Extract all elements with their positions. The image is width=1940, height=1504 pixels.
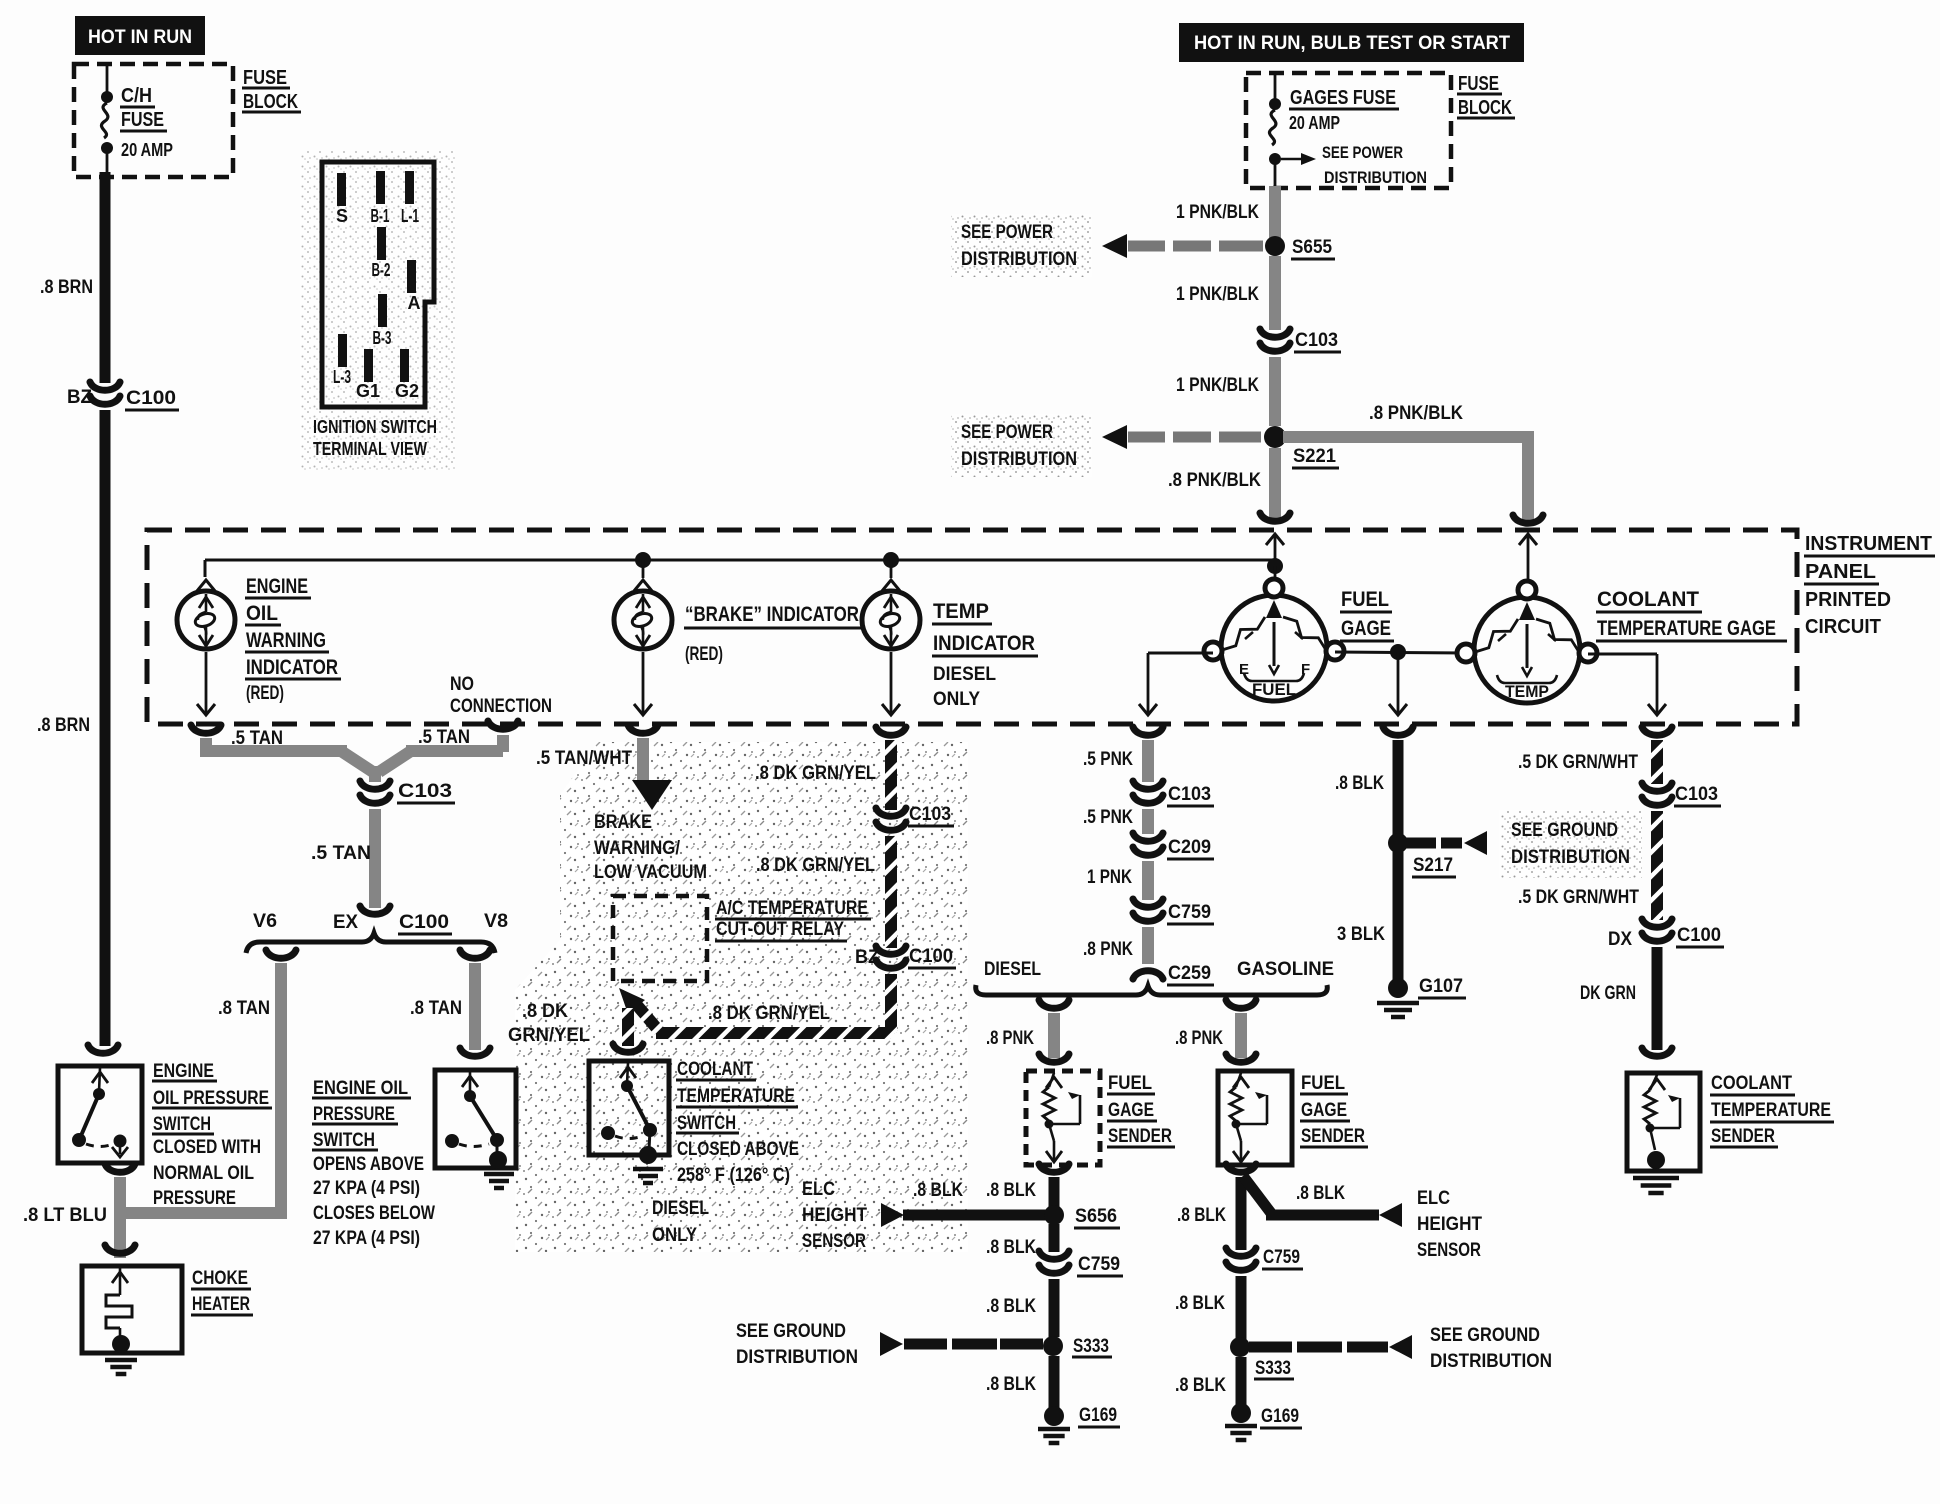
svg-text:SEE GROUND: SEE GROUND bbox=[736, 1321, 846, 1342]
svg-text:.5 TAN/WHT: .5 TAN/WHT bbox=[536, 748, 632, 769]
svg-text:SEE POWER: SEE POWER bbox=[1322, 143, 1403, 162]
instrument panel printed circuit dashed box bbox=[147, 530, 1797, 724]
pin S bbox=[337, 173, 346, 206]
svg-text:INDICATOR: INDICATOR bbox=[246, 656, 338, 679]
svg-text:27 KPA (4 PSI): 27 KPA (4 PSI) bbox=[313, 1178, 420, 1199]
printed circuit bus wire bbox=[205, 559, 1275, 562]
svg-text:SWITCH: SWITCH bbox=[313, 1130, 375, 1151]
svg-text:.8 BLK: .8 BLK bbox=[1177, 1205, 1226, 1226]
svg-text:(RED): (RED) bbox=[685, 644, 723, 665]
pin L-1 bbox=[405, 171, 414, 204]
connector C100 (DX) bbox=[1642, 919, 1672, 927]
svg-text:TEMPERATURE: TEMPERATURE bbox=[1711, 1100, 1831, 1121]
svg-text:.5 TAN: .5 TAN bbox=[311, 843, 371, 864]
svg-text:C103: C103 bbox=[398, 781, 452, 802]
ground G107 bbox=[1388, 978, 1408, 998]
svg-text:DISTRIBUTION: DISTRIBUTION bbox=[736, 1347, 858, 1368]
svg-text:20 AMP: 20 AMP bbox=[1289, 113, 1340, 133]
wire DK GRN to coolant sender bbox=[1652, 947, 1663, 1050]
svg-text:HEIGHT: HEIGHT bbox=[802, 1205, 867, 1226]
svg-text:G169: G169 bbox=[1261, 1406, 1299, 1427]
svg-text:S333: S333 bbox=[1073, 1336, 1109, 1357]
A/C temperature cut-out relay dashed box bbox=[613, 896, 707, 981]
ignition switch connector outline bbox=[322, 162, 434, 407]
svg-text:.8 BLK: .8 BLK bbox=[1175, 1375, 1226, 1396]
svg-text:1 PNK/BLK: 1 PNK/BLK bbox=[1176, 284, 1259, 305]
wire .8 BRN continues bbox=[100, 410, 111, 1046]
svg-text:FUEL: FUEL bbox=[1301, 1073, 1345, 1094]
svg-text:SEE GROUND: SEE GROUND bbox=[1511, 820, 1618, 841]
pin A bbox=[407, 260, 416, 293]
wire .8 DK GRN/YEL C103 to C100 bbox=[885, 836, 897, 948]
svg-text:PRESSURE: PRESSURE bbox=[313, 1104, 395, 1125]
svg-text:SENDER: SENDER bbox=[1711, 1126, 1775, 1147]
pin B-1 bbox=[376, 171, 385, 204]
svg-text:CONNECTION: CONNECTION bbox=[450, 696, 552, 717]
svg-text:TERMINAL VIEW: TERMINAL VIEW bbox=[313, 439, 427, 459]
svg-text:CHOKE: CHOKE bbox=[192, 1268, 248, 1289]
fuel gage sender (diesel, dashed) bbox=[1026, 1071, 1100, 1165]
wire .5 PNK below panel bbox=[1133, 727, 1163, 735]
engine oil pressure switch (closed with normal oil pressure) bbox=[88, 1045, 118, 1053]
wire .8 BLK S333 to G169 (gasoline) bbox=[1236, 1357, 1247, 1407]
svg-text:LOW VACUUM: LOW VACUUM bbox=[594, 862, 707, 883]
svg-text:ELC: ELC bbox=[802, 1179, 835, 1200]
pin B-2 bbox=[377, 227, 386, 260]
wire coolant gage right terminal down bbox=[1588, 653, 1657, 656]
svg-text:DISTRIBUTION: DISTRIBUTION bbox=[1324, 168, 1427, 187]
svg-text:ENGINE: ENGINE bbox=[153, 1061, 214, 1082]
svg-text:27 KPA (4 PSI): 27 KPA (4 PSI) bbox=[313, 1228, 420, 1249]
svg-text:S221: S221 bbox=[1293, 446, 1336, 467]
svg-text:OPENS ABOVE: OPENS ABOVE bbox=[313, 1154, 424, 1175]
wire .5 TAN Y-merge bbox=[200, 738, 212, 752]
wire .8 PNK/BLK S221 down to fuel gage bbox=[1269, 448, 1281, 519]
svg-text:WARNING/: WARNING/ bbox=[594, 838, 681, 859]
svg-text:.8 PNK: .8 PNK bbox=[1175, 1028, 1223, 1049]
svg-text:.5 DK GRN/WHT: .5 DK GRN/WHT bbox=[1518, 752, 1638, 773]
svg-text:SENDER: SENDER bbox=[1108, 1126, 1172, 1147]
svg-text:ENGINE OIL: ENGINE OIL bbox=[313, 1078, 408, 1099]
svg-text:HOT IN RUN, BULB TEST OR STAR: HOT IN RUN, BULB TEST OR START bbox=[1194, 33, 1510, 54]
svg-text:S: S bbox=[336, 206, 348, 226]
wire .8 BLK S656 to C759 bbox=[1049, 1224, 1060, 1252]
svg-text:ENGINE: ENGINE bbox=[246, 575, 308, 598]
svg-text:C100: C100 bbox=[399, 912, 449, 933]
connector cap below engine oil indicator bbox=[191, 725, 221, 733]
wire into coolant temperature switch bbox=[622, 1008, 634, 1046]
svg-text:HEATER: HEATER bbox=[192, 1294, 250, 1315]
ground G169 (gasoline) bbox=[1231, 1403, 1251, 1423]
svg-text:E: E bbox=[1239, 661, 1249, 678]
svg-text:B-2: B-2 bbox=[372, 260, 391, 280]
splice arrow to SEE POWER DISTRIBUTION (S655) bbox=[951, 214, 1092, 277]
svg-text:.5 TAN: .5 TAN bbox=[231, 728, 283, 749]
connector C103 bbox=[1260, 329, 1290, 337]
wire .8 BLK below diesel sender bbox=[1039, 1164, 1069, 1172]
svg-text:GAGES FUSE: GAGES FUSE bbox=[1290, 87, 1396, 109]
svg-text:.8 BRN: .8 BRN bbox=[37, 715, 90, 736]
svg-text:COOLANT: COOLANT bbox=[1711, 1073, 1792, 1094]
wire .8 BLK S333 to G169 bbox=[1049, 1356, 1060, 1410]
svg-text:PRESSURE: PRESSURE bbox=[153, 1188, 236, 1209]
banner HOT IN RUN bbox=[75, 16, 205, 55]
svg-text:.8 BLK: .8 BLK bbox=[986, 1374, 1036, 1395]
svg-text:DISTRIBUTION: DISTRIBUTION bbox=[1511, 847, 1630, 868]
svg-text:.8 BLK: .8 BLK bbox=[1296, 1183, 1345, 1204]
svg-text:CIRCUIT: CIRCUIT bbox=[1805, 616, 1881, 638]
svg-text:SENSOR: SENSOR bbox=[1417, 1240, 1481, 1261]
svg-text:DIESEL: DIESEL bbox=[652, 1198, 709, 1219]
engine oil pressure switch V8 (opens above 27 kPa) bbox=[435, 1070, 516, 1168]
wire .8 PNK to gasoline fuel gage sender bbox=[1226, 1000, 1256, 1008]
pin B-3 bbox=[378, 294, 387, 327]
svg-text:.8 PNK/BLK: .8 PNK/BLK bbox=[1369, 403, 1463, 424]
choke heater bbox=[105, 1245, 135, 1253]
svg-text:C100: C100 bbox=[126, 388, 176, 409]
splice S221 bbox=[1264, 426, 1286, 448]
svg-text:S333: S333 bbox=[1255, 1358, 1291, 1379]
svg-text:DX: DX bbox=[1608, 929, 1632, 950]
svg-text:.8 BLK: .8 BLK bbox=[986, 1237, 1036, 1258]
fuse C/H FUSE 20 AMP bbox=[106, 64, 109, 94]
svg-text:ONLY: ONLY bbox=[933, 689, 980, 710]
wire 1 PNK C209 to C759 bbox=[1142, 861, 1154, 900]
svg-text:FUEL: FUEL bbox=[1252, 680, 1296, 699]
connector C759 (diesel blk) bbox=[1039, 1251, 1069, 1259]
svg-text:C103: C103 bbox=[1295, 330, 1338, 351]
svg-text:L-1: L-1 bbox=[401, 206, 419, 226]
svg-text:CUT-OUT RELAY: CUT-OUT RELAY bbox=[716, 919, 844, 940]
brake indicator lamp bbox=[634, 580, 652, 591]
svg-text:C100: C100 bbox=[1677, 925, 1721, 946]
wire .5 PNK C103 to C209 bbox=[1142, 809, 1154, 834]
svg-text:TEMP: TEMP bbox=[1505, 682, 1549, 701]
svg-text:“BRAKE” INDICATOR: “BRAKE” INDICATOR bbox=[685, 603, 859, 626]
splice S217 and see ground distribution arrow bbox=[1388, 833, 1408, 853]
svg-text:C100: C100 bbox=[909, 946, 953, 967]
svg-text:TEMPERATURE: TEMPERATURE bbox=[677, 1086, 795, 1107]
wire .8 PNK C759 to C259 bbox=[1142, 927, 1154, 964]
node above brake indicator bbox=[635, 552, 651, 568]
svg-text:NO: NO bbox=[450, 674, 474, 695]
connector C759 (gasoline blk) bbox=[1226, 1248, 1256, 1256]
no-connection cap bbox=[488, 721, 518, 729]
svg-text:PANEL: PANEL bbox=[1805, 561, 1876, 583]
svg-text:.8 DK GRN/YEL: .8 DK GRN/YEL bbox=[756, 855, 875, 876]
svg-text:GAGE: GAGE bbox=[1108, 1100, 1154, 1121]
pin L-3 bbox=[338, 334, 347, 367]
wire 3 BLK S217 to G107 bbox=[1393, 851, 1404, 982]
connector C209 bbox=[1133, 833, 1163, 841]
svg-text:BLOCK: BLOCK bbox=[243, 91, 298, 113]
node above temp indicator bbox=[883, 552, 899, 568]
svg-text:.8 TAN: .8 TAN bbox=[218, 998, 270, 1019]
wire .8 TAN (V8) bbox=[460, 950, 490, 958]
svg-text:B-3: B-3 bbox=[373, 328, 392, 348]
svg-text:.8 BLK: .8 BLK bbox=[913, 1180, 963, 1201]
engine oil warning indicator lamp bbox=[197, 580, 215, 591]
wire .5 TAN to C100 bbox=[369, 809, 381, 908]
svg-text:.5 PNK: .5 PNK bbox=[1083, 749, 1133, 770]
svg-text:C/H: C/H bbox=[121, 85, 152, 107]
wire .8 LT BLU bbox=[105, 1164, 135, 1172]
svg-text:CLOSES BELOW: CLOSES BELOW bbox=[313, 1203, 435, 1224]
svg-text:.8 TAN: .8 TAN bbox=[410, 998, 462, 1019]
wire .8 TAN (V6) bbox=[266, 950, 296, 958]
splice S655 bbox=[1265, 236, 1285, 256]
svg-text:.5 PNK: .5 PNK bbox=[1083, 807, 1133, 828]
svg-text:.8 BLK: .8 BLK bbox=[986, 1296, 1036, 1317]
ground G169 (diesel) bbox=[1044, 1406, 1064, 1426]
svg-text:G107: G107 bbox=[1419, 976, 1463, 997]
connector C100 (BZ) bbox=[90, 382, 120, 390]
connector C103 (tan) bbox=[360, 781, 390, 789]
wire 1 PNK/BLK from gages fuse bbox=[1269, 186, 1281, 238]
svg-text:BZ: BZ bbox=[67, 387, 92, 408]
svg-text:DIESEL: DIESEL bbox=[984, 959, 1041, 980]
svg-text:258° F (126° C): 258° F (126° C) bbox=[677, 1165, 790, 1186]
svg-text:.8 BLK: .8 BLK bbox=[986, 1180, 1036, 1201]
svg-text:GRN/YEL: GRN/YEL bbox=[508, 1025, 590, 1046]
fuel gage sender (gasoline) bbox=[1218, 1071, 1292, 1165]
svg-text:SEE POWER: SEE POWER bbox=[961, 222, 1053, 243]
wire .8 BLK C759 to S333 bbox=[1049, 1279, 1060, 1337]
splice S333 (gasoline) and see ground distribution arrow bbox=[1230, 1337, 1250, 1357]
svg-text:.8 PNK: .8 PNK bbox=[986, 1028, 1034, 1049]
svg-text:C209: C209 bbox=[1168, 837, 1211, 858]
svg-text:.5 DK GRN/WHT: .5 DK GRN/WHT bbox=[1518, 887, 1639, 908]
svg-text:INSTRUMENT: INSTRUMENT bbox=[1805, 533, 1932, 555]
svg-text:FUSE: FUSE bbox=[243, 67, 287, 89]
svg-text:1 PNK/BLK: 1 PNK/BLK bbox=[1176, 375, 1259, 396]
svg-text:V6: V6 bbox=[253, 911, 277, 932]
svg-text:A: A bbox=[408, 293, 421, 313]
svg-text:SEE GROUND: SEE GROUND bbox=[1430, 1325, 1540, 1346]
svg-text:FUSE: FUSE bbox=[121, 109, 164, 131]
svg-text:3 BLK: 3 BLK bbox=[1337, 924, 1385, 945]
svg-text:COOLANT: COOLANT bbox=[677, 1059, 753, 1080]
svg-text:CLOSED WITH: CLOSED WITH bbox=[153, 1137, 261, 1158]
splice arrow to SEE POWER DISTRIBUTION (S221) bbox=[951, 414, 1092, 477]
V6/V8 brace bbox=[246, 933, 495, 953]
svg-text:SEE POWER: SEE POWER bbox=[961, 422, 1053, 443]
connector C103 (pnk) bbox=[1133, 781, 1163, 789]
svg-text:INDICATOR: INDICATOR bbox=[933, 632, 1035, 655]
svg-text:GAGE: GAGE bbox=[1301, 1100, 1347, 1121]
svg-text:C103: C103 bbox=[1675, 784, 1718, 805]
fuse GAGES FUSE 20 AMP bbox=[1274, 73, 1277, 101]
svg-text:TEMPERATURE GAGE: TEMPERATURE GAGE bbox=[1597, 617, 1776, 640]
stipple texture behind ignition connector bbox=[300, 150, 455, 470]
large stipple texture region (diesel-only area) bbox=[515, 742, 968, 1252]
svg-text:F: F bbox=[1301, 661, 1310, 678]
svg-text:ELC: ELC bbox=[1417, 1188, 1450, 1209]
coolant temperature gage bbox=[1474, 597, 1580, 703]
wire .8 BLK from fuel gage node bbox=[1383, 727, 1413, 735]
svg-text:DK GRN: DK GRN bbox=[1580, 983, 1636, 1004]
wire .8 PNK/BLK down to coolant gage bbox=[1522, 431, 1534, 521]
svg-text:SWITCH: SWITCH bbox=[677, 1113, 736, 1134]
svg-text:HOT IN RUN: HOT IN RUN bbox=[88, 27, 192, 48]
fuse block (left) dashed box bbox=[74, 64, 233, 177]
wire 1 PNK/BLK S655 to C103 bbox=[1269, 256, 1281, 330]
banner HOT IN RUN BULB TEST OR START bbox=[1179, 23, 1524, 62]
svg-text:GASOLINE: GASOLINE bbox=[1237, 959, 1334, 980]
svg-text:NORMAL OIL: NORMAL OIL bbox=[153, 1163, 254, 1184]
connector C100 (EX) bbox=[360, 906, 390, 914]
wire .5 DK GRN/WHT C103 to C100 bbox=[1651, 811, 1663, 920]
svg-text:.8 BLK: .8 BLK bbox=[1335, 773, 1384, 794]
wire .8 BLK C759 to S333 (gasoline) bbox=[1236, 1276, 1247, 1340]
diesel/gasoline brace bbox=[976, 985, 1328, 995]
feed into coolant gage bbox=[1527, 534, 1530, 582]
svg-text:DISTRIBUTION: DISTRIBUTION bbox=[1430, 1351, 1552, 1372]
svg-text:A/C TEMPERATURE: A/C TEMPERATURE bbox=[716, 898, 868, 919]
svg-text:CLOSED ABOVE: CLOSED ABOVE bbox=[677, 1139, 799, 1160]
svg-text:.8 PNK: .8 PNK bbox=[1083, 939, 1133, 960]
svg-text:.8 PNK/BLK: .8 PNK/BLK bbox=[1168, 470, 1261, 491]
svg-text:C103: C103 bbox=[909, 804, 951, 825]
svg-text:BLOCK: BLOCK bbox=[1458, 97, 1512, 119]
svg-text:SENDER: SENDER bbox=[1301, 1126, 1365, 1147]
svg-text:FUEL: FUEL bbox=[1341, 588, 1389, 611]
svg-text:1 PNK: 1 PNK bbox=[1087, 867, 1132, 888]
svg-text:G2: G2 bbox=[395, 381, 419, 401]
svg-text:(RED): (RED) bbox=[246, 683, 284, 704]
svg-text:OIL: OIL bbox=[246, 602, 278, 625]
wire .5 TAN/WHT to brake warning bbox=[628, 725, 658, 733]
svg-text:S217: S217 bbox=[1413, 855, 1453, 876]
connector C103 (dk grn/yel) bbox=[876, 808, 906, 816]
connector C100 (BZ dk grn/yel) bbox=[876, 946, 906, 954]
svg-text:SWITCH: SWITCH bbox=[153, 1114, 211, 1135]
wire .8 BLK below gasoline sender bbox=[1226, 1164, 1256, 1172]
svg-text:HEIGHT: HEIGHT bbox=[1417, 1214, 1482, 1235]
feed into fuel gage node bbox=[1274, 534, 1277, 566]
svg-text:C103: C103 bbox=[1168, 784, 1211, 805]
svg-text:G169: G169 bbox=[1079, 1405, 1117, 1426]
svg-text:DIESEL: DIESEL bbox=[933, 664, 996, 685]
wire .8 DK GRN/YEL from temp indicator bbox=[876, 727, 906, 735]
svg-text:1 PNK/BLK: 1 PNK/BLK bbox=[1176, 202, 1259, 223]
connector C759 (pnk) bbox=[1133, 899, 1163, 907]
wire .8 DK GRN/YEL C100 down and left bbox=[885, 974, 897, 1033]
svg-text:B-1: B-1 bbox=[371, 206, 390, 226]
svg-text:C759: C759 bbox=[1263, 1247, 1300, 1268]
splice S333 (diesel) and see ground distribution arrow bbox=[1043, 1336, 1063, 1356]
ELC height sensor branch (diesel) bbox=[881, 1203, 904, 1227]
svg-text:OIL PRESSURE: OIL PRESSURE bbox=[153, 1088, 269, 1109]
svg-text:V8: V8 bbox=[484, 911, 508, 932]
svg-text:20 AMP: 20 AMP bbox=[121, 140, 173, 160]
pin G1 bbox=[364, 349, 373, 382]
svg-text:FUEL: FUEL bbox=[1108, 1073, 1152, 1094]
wire .8 PNK to diesel fuel gage sender bbox=[1039, 1000, 1069, 1008]
coolant temperature sender bbox=[1627, 1073, 1700, 1171]
svg-text:.5 TAN: .5 TAN bbox=[418, 727, 470, 748]
svg-text:COOLANT: COOLANT bbox=[1597, 588, 1699, 611]
svg-text:G1: G1 bbox=[356, 381, 380, 401]
svg-text:IGNITION SWITCH: IGNITION SWITCH bbox=[313, 417, 437, 437]
svg-text:.8 BLK: .8 BLK bbox=[1175, 1293, 1225, 1314]
svg-text:BRAKE: BRAKE bbox=[594, 812, 652, 833]
wire fuel gage left terminal to pnk drop bbox=[1148, 652, 1213, 655]
svg-text:C759: C759 bbox=[1168, 902, 1211, 923]
ELC height sensor branch (gasoline) bbox=[1243, 1176, 1271, 1213]
svg-text:.8 DK: .8 DK bbox=[522, 1001, 568, 1022]
svg-text:S656: S656 bbox=[1075, 1206, 1117, 1227]
svg-text:FUSE: FUSE bbox=[1458, 73, 1499, 95]
coolant temperature switch bbox=[589, 1061, 669, 1155]
svg-text:C259: C259 bbox=[1168, 963, 1211, 984]
svg-text:GAGE: GAGE bbox=[1341, 617, 1391, 640]
svg-text:L-3: L-3 bbox=[333, 367, 351, 387]
see power distribution pointer inside fuse block bbox=[1281, 158, 1301, 161]
svg-text:BZ: BZ bbox=[855, 947, 879, 968]
wire .5 DK GRN/WHT below panel bbox=[1642, 727, 1672, 735]
svg-text:TEMP: TEMP bbox=[933, 600, 989, 623]
connector C259 bbox=[1133, 971, 1163, 979]
connector C103 (dk grn/wht) bbox=[1642, 783, 1672, 791]
svg-text:SENSOR: SENSOR bbox=[802, 1231, 866, 1252]
wire .8 PNK/BLK S221 to right bbox=[1283, 431, 1534, 443]
arrow to A/C temperature cut-out relay bbox=[636, 1004, 659, 1031]
svg-text:ONLY: ONLY bbox=[652, 1225, 697, 1246]
fuse block (right) dashed box bbox=[1246, 73, 1451, 188]
svg-text:.8 DK GRN/YEL: .8 DK GRN/YEL bbox=[755, 763, 876, 784]
pin G2 bbox=[400, 349, 409, 382]
fuel gage bbox=[1221, 595, 1327, 701]
svg-text:WARNING: WARNING bbox=[246, 629, 326, 652]
temp indicator lamp bbox=[882, 580, 900, 591]
svg-text:.8 DK GRN/YEL: .8 DK GRN/YEL bbox=[708, 1003, 830, 1024]
wire 1 PNK/BLK C103 to S221 bbox=[1269, 357, 1281, 426]
svg-text:.8 LT BLU: .8 LT BLU bbox=[23, 1205, 107, 1226]
svg-text:DISTRIBUTION: DISTRIBUTION bbox=[961, 449, 1077, 470]
node to blk drop bbox=[1390, 644, 1406, 660]
svg-text:.8 BRN: .8 BRN bbox=[40, 277, 93, 298]
svg-text:S655: S655 bbox=[1292, 237, 1332, 258]
arrow to brake warning / low vacuum bbox=[632, 780, 672, 810]
svg-text:PRINTED: PRINTED bbox=[1805, 589, 1891, 611]
wire fuel gage right terminal to node bbox=[1335, 652, 1466, 653]
svg-text:DISTRIBUTION: DISTRIBUTION bbox=[961, 249, 1077, 270]
wire .8 BRN from C/H fuse bbox=[100, 172, 111, 383]
svg-text:C759: C759 bbox=[1078, 1254, 1120, 1275]
svg-text:EX: EX bbox=[333, 912, 358, 933]
splice S656 bbox=[1044, 1205, 1064, 1225]
